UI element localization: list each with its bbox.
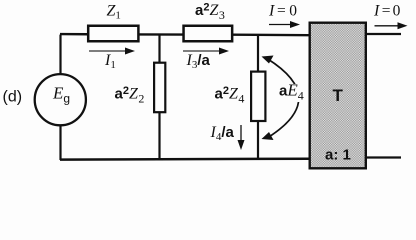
svg-text:I=0: I=0 bbox=[373, 2, 401, 19]
svg-text:(d): (d) bbox=[3, 89, 23, 106]
wire a2Z2 upper bbox=[158, 35, 160, 63]
wire source bottom bbox=[59, 126, 61, 161]
voltage source Eg bbox=[35, 74, 86, 125]
wire bottom bus bbox=[60, 157, 309, 160]
svg-text:T: T bbox=[333, 86, 344, 105]
svg-text:a: 1: a: 1 bbox=[325, 147, 351, 164]
svg-text:I3/a: I3/a bbox=[186, 52, 211, 71]
impedance Z1 bbox=[88, 26, 138, 42]
svg-text:I4/a: I4/a bbox=[210, 124, 235, 143]
impedance a2Z2 bbox=[154, 63, 165, 112]
wire a2Z4 upper bbox=[257, 35, 259, 72]
wire between Z1 and a2Z3 bbox=[139, 33, 183, 36]
current arrow I=0 (right) bbox=[375, 22, 408, 29]
wire top-left segment bbox=[60, 33, 88, 36]
current arrow I3/a bbox=[183, 48, 229, 55]
wire secondary bottom bbox=[367, 156, 401, 158]
label aE4 bbox=[277, 84, 304, 102]
wire source top bbox=[59, 35, 61, 75]
wire a2Z2 lower bbox=[158, 113, 160, 160]
wire a2Z3 to block T bbox=[233, 34, 309, 37]
voltage arc aE4 bbox=[262, 56, 299, 141]
wire secondary top bbox=[367, 33, 401, 35]
current arrow I1 bbox=[89, 48, 135, 55]
wire a2Z4 lower bbox=[257, 122, 259, 159]
current arrow I4/a (down) bbox=[238, 125, 245, 150]
svg-text:I=0: I=0 bbox=[268, 2, 297, 19]
impedance a2Z3 bbox=[184, 26, 233, 42]
impedance a2Z4 bbox=[251, 72, 265, 121]
transformer block T bbox=[310, 23, 366, 169]
current arrow I=0 (left) bbox=[269, 21, 300, 28]
